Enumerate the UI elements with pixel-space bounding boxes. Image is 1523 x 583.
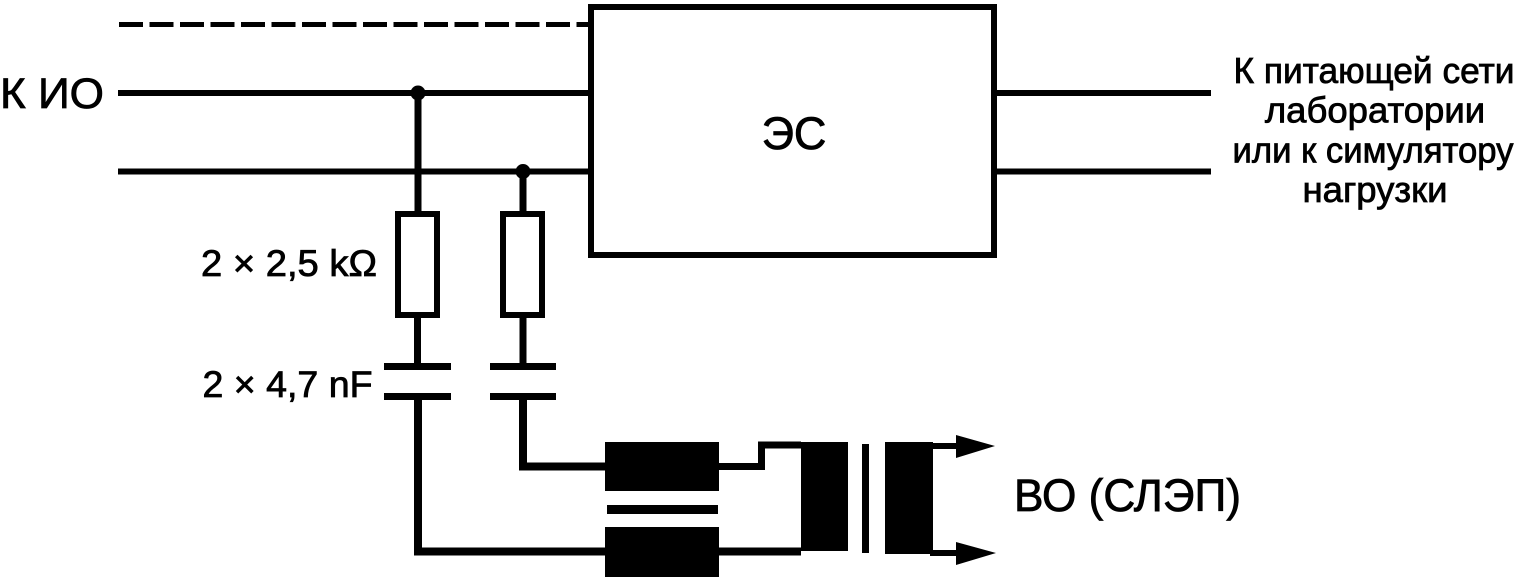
transformer core line: [862, 444, 869, 553]
wire resistor R1 to capacitor C1: [414, 315, 421, 367]
svg-text:лаборатории: лаборатории: [1265, 90, 1485, 131]
wire lower winding to transformer primary: [719, 548, 801, 556]
transformer secondary bar: [885, 442, 933, 554]
coupling device upper winding block: [605, 442, 719, 491]
dashed ground/reference line: [119, 22, 591, 27]
svg-text:или к симулятору: или к симулятору: [1233, 129, 1515, 170]
wire resistor R2 to capacitor C2: [520, 315, 527, 367]
wire capacitor C2 down and right to upper coupling block: [523, 397, 605, 467]
wire upper winding to transformer primary (stepped): [719, 445, 801, 467]
wire from top-wire junction down to resistor R1: [415, 93, 422, 214]
arrow top output: [956, 435, 995, 458]
junction node on top wire: [411, 86, 426, 101]
wire top-left supply line: [118, 90, 591, 96]
capacitor C1 top plate: [384, 363, 451, 370]
block ES (equipment under test): [591, 7, 994, 255]
svg-text:нагрузки: нагрузки: [1302, 169, 1447, 210]
coupling device lower winding block: [605, 527, 719, 577]
capacitor C2 top plate: [490, 363, 556, 370]
svg-text:2 × 2,5 kΩ: 2 × 2,5 kΩ: [201, 243, 377, 284]
wire bottom-right supply line: [994, 169, 1211, 175]
wire capacitor C1 down and right to lower coupling block: [418, 397, 605, 552]
capacitor C2 bottom plate: [490, 393, 556, 400]
wire secondary top output: [930, 443, 960, 449]
coupling device core bar: [607, 505, 718, 514]
svg-text:ВО (СЛЭП): ВО (СЛЭП): [1014, 470, 1241, 521]
svg-text:К ИО: К ИО: [0, 70, 104, 118]
svg-text:К питающей сети: К питающей сети: [1234, 50, 1515, 91]
wire from bottom-wire junction down to resistor R2: [520, 172, 527, 215]
junction node on bottom wire: [516, 164, 531, 179]
resistor R2 body: [503, 214, 542, 315]
wire bottom-left supply line: [118, 169, 591, 175]
resistor R1 body: [398, 214, 437, 315]
transformer primary bar: [801, 442, 848, 551]
svg-text:2 × 4,7 nF: 2 × 4,7 nF: [203, 364, 373, 405]
svg-text:ЭС: ЭС: [762, 108, 827, 159]
wire secondary bottom output: [930, 550, 960, 556]
arrow bottom output: [956, 542, 996, 565]
wire top-right supply line: [994, 90, 1211, 96]
capacitor C1 bottom plate: [384, 393, 451, 400]
